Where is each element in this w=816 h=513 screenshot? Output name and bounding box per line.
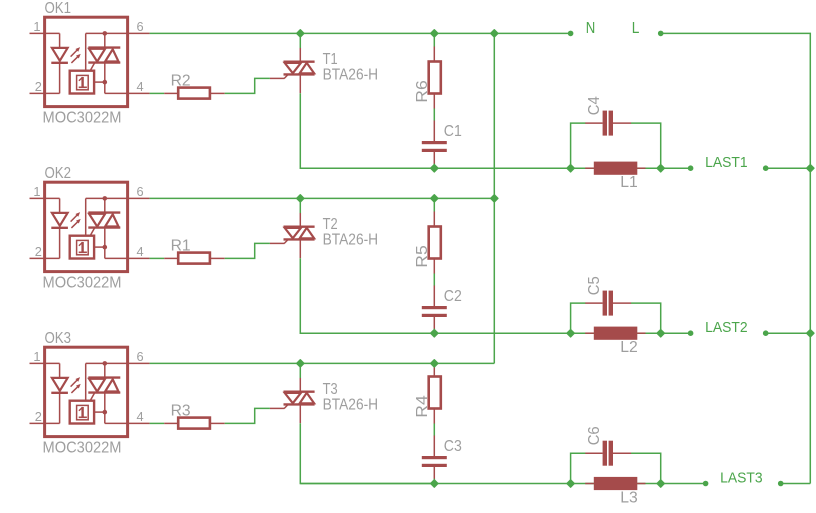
junction snubber left C5 [567,330,574,337]
capacitor C1 [433,121,435,142]
wire node from top rail to R5 [433,198,435,211]
capacitor C5 [585,302,602,304]
triac T3 BTA26-H [270,407,285,409]
wire L to right edge and down [661,33,811,483]
svg-text:OK1: OK1 [45,0,72,17]
junction LAST2 on right vertical [807,330,814,337]
wire T2 MT1 down to LAST2 rail [300,258,434,333]
junction LAST1 on right vertical [807,165,814,172]
wire R4 to C3 [433,424,435,436]
svg-text:R3: R3 [171,402,191,419]
wire node from top rail to R4 [433,362,435,364]
junction snubber left C4 [567,165,574,172]
wire snubber loop C4 branch [571,123,586,168]
wire C2 to LAST2 rail [433,329,435,334]
svg-text:LAST1: LAST1 [705,154,748,171]
wire LAST2 to L rail [766,332,811,334]
optocoupler OK2 MOC3022M [45,182,128,271]
wire pin4 OK1 to resistor R2 [150,92,165,94]
wire LAST3 to L rail [781,483,811,485]
svg-text:R6: R6 [414,80,431,103]
wire T3 MT1 down to LAST3 rail [300,423,434,483]
junction T1 MT2 [297,30,304,37]
inductor L3 [585,483,594,485]
svg-text:R4: R4 [414,395,431,418]
junction C1 bottom [431,165,438,172]
wire MT2 rail of T2 to N bus [300,197,494,199]
resistor R5 [433,212,435,227]
wire junction to T1 MT2 pin [299,33,301,48]
wire junction to T2 MT2 pin [299,198,301,213]
wire snubber loop C6 branch [571,453,586,483]
node N end dot [568,31,574,37]
resistor R1 [164,257,178,259]
junction R6 top [431,30,438,37]
wire C1 to LAST1 rail [433,164,435,169]
wire MT2 rail of T3 to N bus [300,362,494,364]
node LAST1 wire end dot [688,165,694,171]
node LAST1 right segment start dot [763,165,769,171]
svg-text:OK3: OK3 [45,330,72,347]
capacitor C6 [585,452,602,454]
wire R2 to gate of T1 [225,78,270,93]
capacitor C3 [433,436,435,457]
svg-text:4: 4 [137,409,144,424]
junction snubber right C6 [657,480,664,487]
svg-text:BTA26-H: BTA26-H [323,66,379,83]
capacitor C2 [433,286,435,307]
wire MT2 rail of T1 to N bus [300,32,494,34]
svg-text:C3: C3 [444,438,462,455]
resistor R3 [164,422,178,424]
wire R5 to C2 [433,274,435,286]
wire LAST2 rail [300,332,690,334]
wire LAST3 rail [300,483,705,485]
svg-text:MOC3022M: MOC3022M [43,439,122,456]
svg-text:MOC3022M: MOC3022M [43,109,122,126]
svg-text:4: 4 [137,244,144,259]
junction R4 top [431,360,438,367]
svg-text:R5: R5 [414,245,431,268]
svg-text:2: 2 [35,244,42,259]
optocoupler OK3 MOC3022M [45,347,128,436]
node LAST3 right segment start dot [778,481,784,487]
svg-text:L1: L1 [620,174,638,191]
wire pin4 OK2 to resistor R1 [150,257,165,259]
svg-text:MOC3022M: MOC3022M [43,274,122,291]
wire LAST1 to L rail [766,167,811,169]
svg-text:C4: C4 [586,96,603,115]
svg-text:C1: C1 [444,123,462,140]
svg-text:L2: L2 [620,339,638,356]
node LAST3 wire end dot [703,481,709,487]
wire R1 to gate of T2 [225,243,270,258]
svg-text:4: 4 [137,79,144,94]
svg-text:2: 2 [35,79,42,94]
svg-text:LAST3: LAST3 [720,470,763,487]
wire pin6 OK2 to triac T2 [150,197,301,199]
node LAST2 right segment start dot [763,330,769,336]
wire pin6 OK3 to triac T3 [150,362,301,364]
junction T3 MT2 [297,360,304,367]
svg-text:1: 1 [33,349,40,364]
junction C3 bottom [431,480,438,487]
wire pin6 OK1 to triac T1 [150,32,301,34]
wire junction to T3 MT2 pin [299,363,301,378]
junction C2 bottom [431,330,438,337]
triac T2 BTA26-H [270,242,285,244]
inductor L2 [585,332,594,334]
wire snubber loop C5 branch [571,303,586,333]
svg-text:N: N [586,20,596,37]
wire N bus vertical x=494 [493,33,495,363]
junction N bus channel 2 [491,195,498,202]
junction R5 top [431,195,438,202]
node L start dot [658,31,664,37]
triac T1 BTA26-H [270,77,285,79]
wire top rail to N [494,32,570,34]
junction T2 MT2 [297,195,304,202]
node LAST2 wire end dot [688,330,694,336]
wire node from top rail to R6 [433,33,435,46]
svg-text:6: 6 [137,19,144,34]
svg-text:OK2: OK2 [45,165,72,182]
svg-text:C5: C5 [586,276,603,295]
wire pin4 OK3 to resistor R3 [150,422,165,424]
resistor R2 [164,92,178,94]
junction snubber right C5 [657,330,664,337]
junction snubber right C4 [657,165,664,172]
svg-text:1: 1 [33,19,40,34]
resistor R6 [433,47,435,62]
wire R3 to gate of T3 [225,408,270,423]
capacitor C4 [585,122,602,124]
svg-text:R1: R1 [171,237,191,254]
optocoupler OK1 MOC3022M [45,17,128,106]
svg-text:L3: L3 [620,489,638,506]
svg-text:1: 1 [33,184,40,199]
svg-text:BTA26-H: BTA26-H [323,396,379,413]
wire C3 to LAST3 rail [433,479,435,484]
svg-text:R2: R2 [171,72,191,89]
svg-text:LAST2: LAST2 [705,319,748,336]
svg-text:L: L [632,20,640,37]
svg-text:6: 6 [137,349,144,364]
inductor L1 [585,167,594,169]
wire LAST1 rail [300,167,690,169]
svg-text:2: 2 [35,409,42,424]
wire T1 MT1 down to LAST1 rail [300,93,434,168]
svg-text:C2: C2 [444,288,462,305]
resistor R4 [433,362,435,377]
wire R6 to C1 [433,109,435,121]
svg-text:BTA26-H: BTA26-H [323,231,379,248]
svg-text:C6: C6 [586,426,603,445]
junction snubber left C6 [567,480,574,487]
junction N bus top [491,30,498,37]
svg-text:6: 6 [137,184,144,199]
